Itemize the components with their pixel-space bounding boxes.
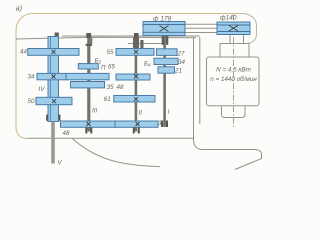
svg-text:61: 61	[104, 96, 111, 103]
svg-text:50: 50	[28, 98, 35, 105]
svg-text:а): а)	[16, 6, 22, 13]
svg-text:N = 4,5 кВт: N = 4,5 кВт	[216, 67, 251, 74]
svg-text:V: V	[58, 160, 63, 167]
svg-text:65: 65	[108, 64, 115, 71]
svg-text:n = 1440 об/мин: n = 1440 об/мин	[210, 75, 257, 83]
svg-text:39: 39	[158, 120, 165, 127]
svg-text:II: II	[139, 110, 143, 117]
svg-text:Б3: Б3	[95, 58, 102, 65]
svg-text:ф 178: ф 178	[153, 16, 172, 23]
svg-text:55: 55	[107, 49, 114, 56]
svg-text:П: П	[101, 65, 106, 72]
svg-text:ф140: ф140	[220, 15, 237, 22]
svg-text:44: 44	[20, 49, 27, 56]
svg-text:IV: IV	[39, 86, 46, 93]
svg-text:34: 34	[178, 59, 185, 66]
svg-text:35: 35	[107, 84, 114, 91]
svg-text:48: 48	[63, 130, 70, 137]
svg-text:48: 48	[117, 84, 124, 91]
svg-text:34: 34	[28, 74, 35, 81]
svg-text:21: 21	[174, 68, 182, 75]
svg-text:I: I	[168, 109, 170, 116]
svg-text:27: 27	[177, 51, 185, 58]
svg-text:III: III	[92, 108, 97, 115]
svg-text:Б4: Б4	[144, 61, 151, 68]
